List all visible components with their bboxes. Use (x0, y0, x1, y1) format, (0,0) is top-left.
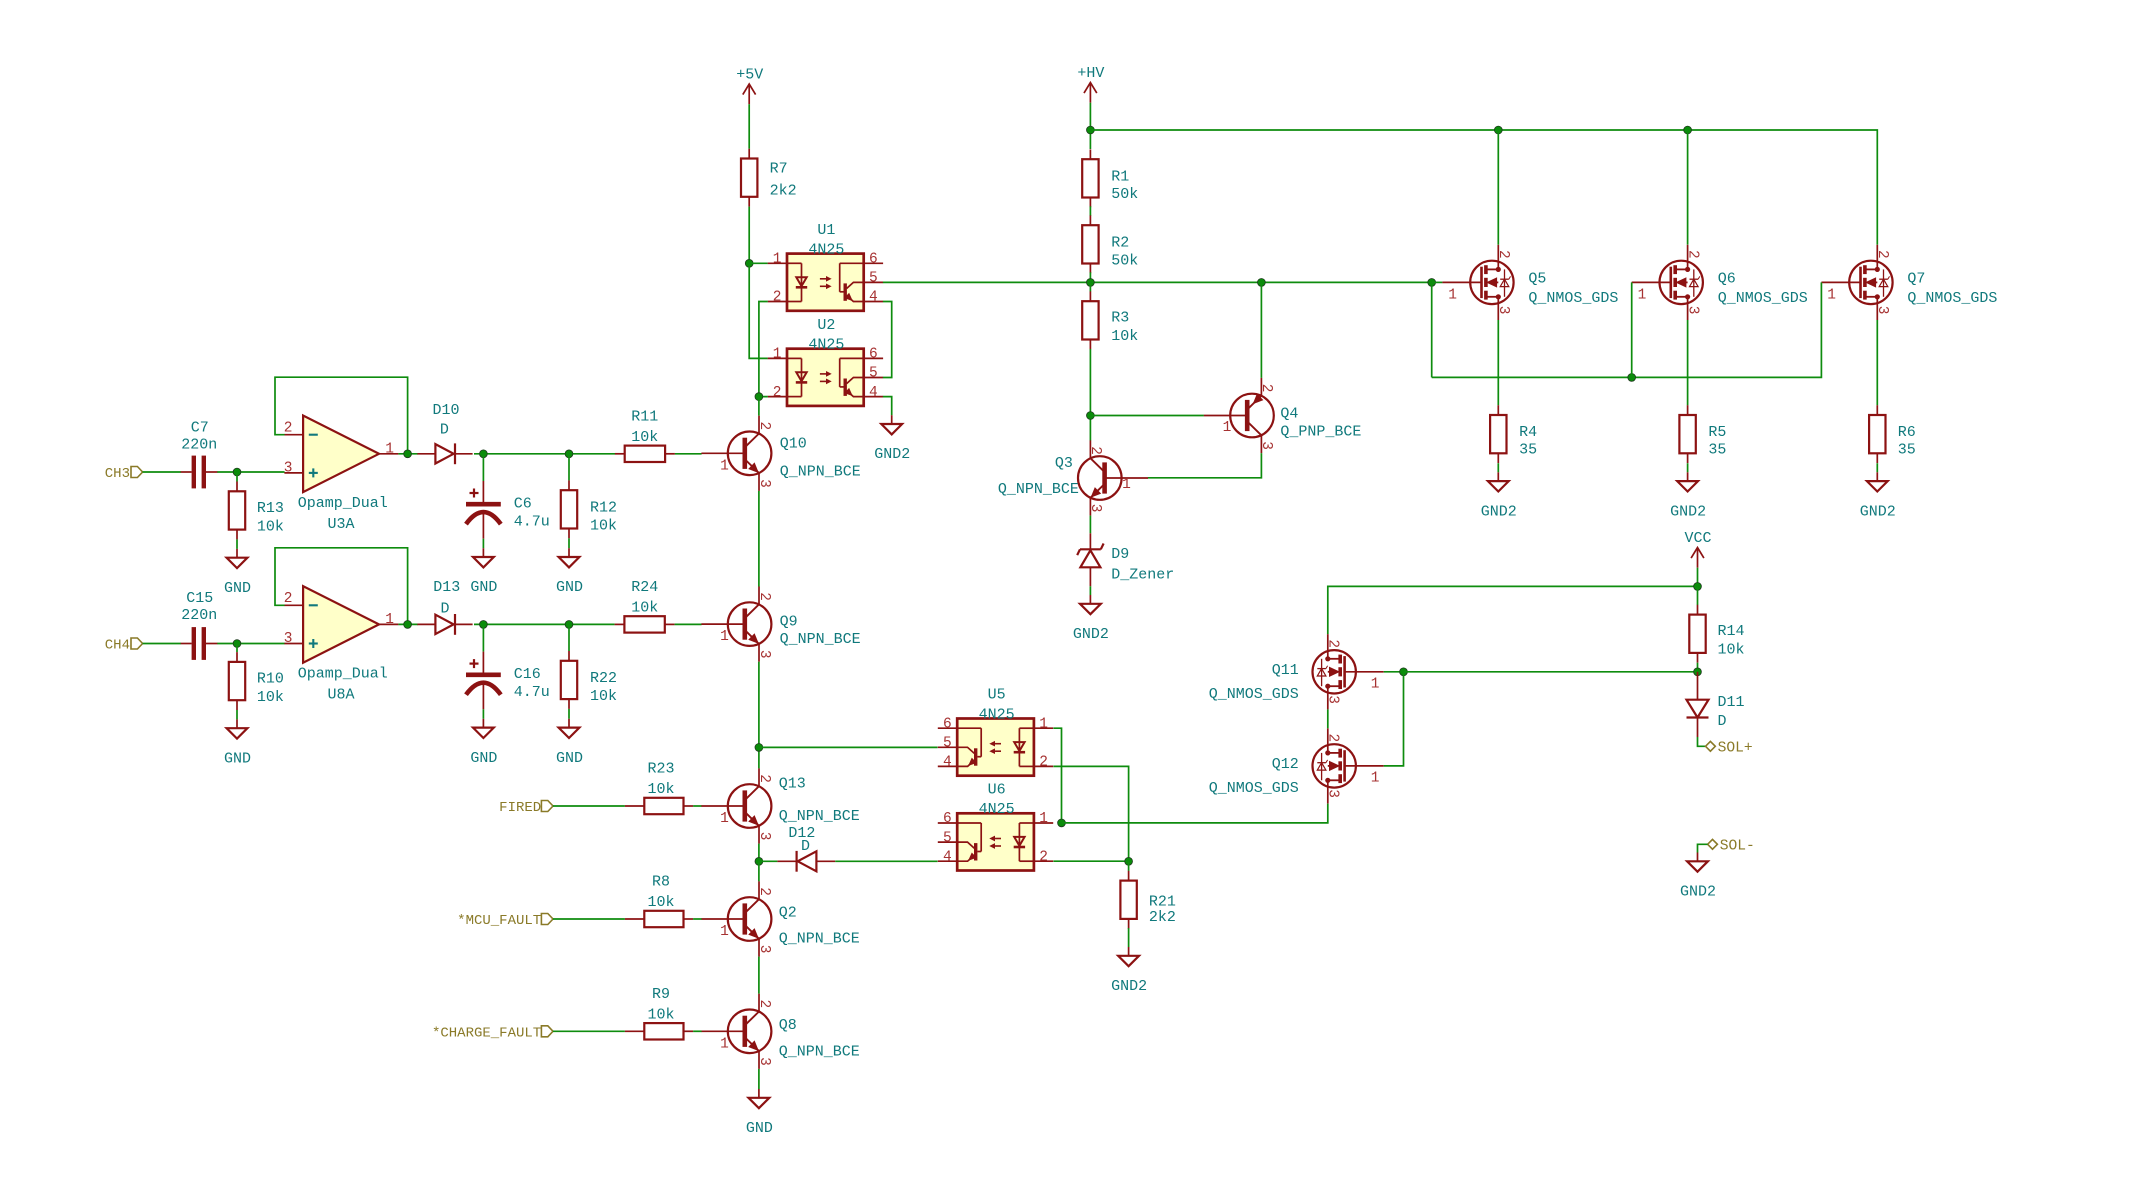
svg-text:R6: R6 (1898, 424, 1916, 441)
resistor R4 (1490, 415, 1506, 453)
svg-text:5: 5 (943, 830, 952, 846)
wire R9 to Q8 base (693, 1030, 702, 1032)
svg-text:4.7u: 4.7u (514, 684, 550, 701)
svg-text:6: 6 (869, 347, 878, 363)
svg-text:2: 2 (756, 592, 772, 601)
wire node to Q4 base (1090, 415, 1204, 417)
svg-text:1: 1 (1223, 420, 1232, 436)
svg-text:Opamp_Dual: Opamp_Dual (298, 665, 388, 682)
transistor Q13 (728, 784, 772, 828)
junction rail to Q6 drain (1684, 126, 1692, 134)
svg-text:D11: D11 (1718, 694, 1745, 711)
svg-text:CH3: CH3 (105, 466, 130, 482)
wire VCC node to R14 (1697, 586, 1699, 605)
svg-text:2: 2 (756, 887, 772, 896)
diode D11 (1687, 700, 1709, 718)
resistor R24 (624, 616, 664, 632)
junction R12 node (565, 450, 573, 458)
svg-text:Opamp_Dual: Opamp_Dual (298, 495, 388, 512)
junction D12 node (755, 857, 763, 865)
wire junction to R3 (1089, 282, 1091, 291)
junction CH4/R10 (233, 640, 241, 648)
svg-text:3: 3 (1874, 306, 1890, 315)
capacitor C16 (482, 652, 484, 674)
transistor Q7 (1849, 261, 1892, 304)
wire C16 to GND (482, 709, 484, 719)
wire VCC to junction (1697, 568, 1699, 587)
resistor R2 (1082, 225, 1098, 263)
wire R24 to Q9 base (675, 623, 702, 625)
svg-text:GND2: GND2 (874, 446, 910, 463)
svg-text:Q_NMOS_GDS: Q_NMOS_GDS (1907, 290, 1997, 307)
wire U3A feedback (275, 377, 408, 454)
junction gate bus to Q6 (1628, 374, 1636, 382)
wire U3A output (398, 453, 418, 455)
wire R8 to Q2 base (693, 918, 702, 920)
svg-text:GND: GND (224, 750, 251, 767)
svg-text:D: D (801, 838, 810, 855)
wire Q6 source to R5 (1687, 320, 1689, 405)
wire D10 to C6/R12/R11 (474, 453, 615, 455)
svg-text:35: 35 (1708, 441, 1726, 458)
svg-text:D9: D9 (1111, 546, 1129, 563)
D9 cathode pin (1089, 567, 1091, 586)
svg-text:D13: D13 (433, 579, 460, 596)
wire Q2 emitter to Q8 collector (758, 957, 760, 994)
wire FIRED to R23 (553, 805, 625, 807)
wire gate node to R14 node (1404, 671, 1698, 673)
svg-text:D_Zener: D_Zener (1111, 566, 1174, 583)
ground GND2 below R21 (1128, 947, 1130, 956)
svg-text:10k: 10k (631, 429, 658, 446)
ground below R22 (568, 719, 570, 728)
wire Q8 emitter to GND (758, 1069, 760, 1089)
hierarchical label SOL- (1708, 839, 1718, 849)
junction C16 node (480, 621, 488, 629)
junction R21 node (1125, 857, 1133, 865)
svg-text:D10: D10 (432, 402, 459, 419)
svg-text:2: 2 (284, 591, 293, 607)
wire Q9 emitter to junction and Q13 (758, 662, 760, 769)
svg-text:3: 3 (1325, 789, 1341, 798)
svg-text:R23: R23 (647, 761, 674, 778)
svg-text:Q4: Q4 (1280, 405, 1298, 422)
diode D11 anode pin (1697, 672, 1699, 700)
wire U6 pin2 to R21 node (1053, 860, 1128, 862)
svg-text:Q_NPN_BCE: Q_NPN_BCE (779, 931, 860, 948)
svg-text:3: 3 (1087, 504, 1103, 513)
optocoupler U1 (787, 254, 864, 311)
svg-text:10k: 10k (1718, 642, 1745, 659)
wire Q11 gate to node (1384, 671, 1404, 673)
optocoupler U2 (787, 349, 864, 406)
junction gate wire to Q4 emitter (1258, 279, 1266, 287)
wire gate bus vertical Q5 (1431, 282, 1433, 377)
net label *CHARGE_FAULT (541, 1026, 553, 1037)
svg-text:4N25: 4N25 (979, 801, 1015, 818)
junction Q9/Q13/U5 node (755, 744, 763, 752)
svg-text:Q12: Q12 (1272, 756, 1299, 773)
svg-text:GND: GND (470, 579, 497, 596)
wire R7 to U1 pin1 (748, 207, 750, 264)
svg-text:R14: R14 (1718, 623, 1745, 640)
svg-text:Q_PNP_BCE: Q_PNP_BCE (1280, 424, 1361, 441)
svg-text:Q11: Q11 (1272, 662, 1299, 679)
wire Q4 collector to Q3 base (1148, 453, 1262, 478)
capacitor C7 (192, 456, 196, 489)
svg-text:2: 2 (1039, 849, 1048, 865)
wire C7 to junction and opamp pin3 (217, 471, 284, 473)
net label FIRED (541, 801, 553, 812)
net label CH3 (131, 467, 143, 478)
svg-text:C7: C7 (191, 420, 209, 437)
power +5V (743, 84, 756, 95)
svg-text:D: D (1718, 713, 1727, 730)
resistor R9 (644, 1023, 683, 1039)
svg-text:R21: R21 (1149, 893, 1176, 910)
op-amp U3A (303, 416, 379, 493)
wire R3 to Q3 node (1089, 349, 1091, 441)
wire node to U5 pin5 (759, 746, 938, 748)
transistor Q6 (1660, 261, 1703, 304)
wire U2 pin4 to GND2 (883, 397, 892, 416)
svg-text:Q10: Q10 (780, 435, 807, 452)
svg-text:4.7u: 4.7u (514, 514, 550, 531)
wire Q6 gate drop (1631, 282, 1633, 377)
svg-text:D: D (440, 422, 449, 439)
resistor R21 (1120, 881, 1136, 919)
junction gate node Q11/Q12 (1400, 668, 1408, 676)
svg-text:R4: R4 (1519, 424, 1537, 441)
svg-text:4N25: 4N25 (808, 242, 844, 259)
wire R13 to GND (236, 539, 238, 549)
svg-text:Q7: Q7 (1907, 270, 1925, 287)
transistor Q8 (728, 1010, 772, 1054)
junction R7/U1/U2 node (745, 259, 753, 267)
svg-text:2: 2 (1325, 639, 1341, 648)
svg-text:U1: U1 (817, 222, 835, 239)
wire R21 to GND2 (1128, 928, 1130, 947)
svg-text:220n: 220n (181, 607, 217, 624)
svg-text:2: 2 (1684, 250, 1700, 259)
svg-text:Q6: Q6 (1718, 270, 1736, 287)
wire U5 pin2 to R21 node (1053, 766, 1128, 861)
svg-text:GND: GND (556, 750, 583, 767)
ground GND2 below D9 (1089, 595, 1091, 604)
resistor R6 (1869, 415, 1885, 453)
wire U8A feedback (275, 548, 408, 625)
svg-text:U2: U2 (817, 317, 835, 334)
wire down to C6 (482, 454, 484, 481)
junction C6 node (480, 450, 488, 458)
svg-text:R22: R22 (590, 670, 617, 687)
resistor R14 (1689, 615, 1705, 653)
diode D10 (435, 444, 453, 463)
transistor Q11 (1313, 650, 1356, 693)
svg-text:R2: R2 (1111, 234, 1129, 251)
svg-text:35: 35 (1519, 441, 1537, 458)
svg-text:2: 2 (1087, 446, 1103, 455)
ground below Q8 (758, 1089, 760, 1098)
svg-text:U8A: U8A (328, 686, 355, 703)
ground below C16 (482, 719, 484, 728)
svg-text:Q_NMOS_GDS: Q_NMOS_GDS (1209, 686, 1299, 703)
svg-text:C6: C6 (514, 495, 532, 512)
wire U1 pin4 to U2 pin5 (883, 302, 892, 378)
svg-text:R3: R3 (1111, 309, 1129, 326)
svg-text:Q5: Q5 (1528, 270, 1546, 287)
transistor Q4 (1230, 394, 1274, 438)
zener diode D9 anode pin (1089, 533, 1091, 549)
resistor R7 (741, 159, 757, 197)
resistor R1 (1082, 159, 1098, 197)
junction Q3 base rail node (1087, 412, 1095, 420)
svg-text:R9: R9 (652, 986, 670, 1003)
svg-text:*CHARGE_FAULT: *CHARGE_FAULT (432, 1026, 541, 1042)
wire CH3 to C7 (143, 471, 181, 473)
svg-text:1: 1 (1039, 811, 1048, 827)
svg-text:3: 3 (1325, 695, 1341, 704)
svg-text:2: 2 (1039, 755, 1048, 771)
transistor Q9 (728, 602, 772, 646)
svg-text:CH4: CH4 (105, 638, 130, 654)
svg-text:+5V: +5V (736, 66, 763, 83)
wire U1 pin5 long wire to MOSFET gates (883, 281, 1432, 283)
svg-text:C15: C15 (186, 590, 213, 607)
svg-text:3: 3 (1495, 306, 1511, 315)
wire R23 to Q13 base (693, 805, 702, 807)
svg-text:6: 6 (943, 811, 952, 827)
svg-text:5: 5 (943, 736, 952, 752)
wire down to U2 pin1 (749, 263, 768, 358)
svg-text:U6: U6 (988, 782, 1006, 799)
wire D9 to GND2 (1089, 586, 1091, 595)
svg-text:GND: GND (470, 750, 497, 767)
svg-text:3: 3 (756, 479, 772, 488)
junction VCC node (1694, 583, 1702, 591)
svg-text:R11: R11 (631, 408, 658, 425)
wire R4 to GND2 (1497, 463, 1499, 472)
svg-text:220n: 220n (181, 437, 217, 454)
svg-text:*MCU_FAULT: *MCU_FAULT (457, 913, 541, 929)
svg-text:GND2: GND2 (1670, 503, 1706, 520)
wire D13 to C16/R22/R24 (474, 623, 615, 625)
transistor Q12 (1313, 744, 1356, 787)
svg-text:1: 1 (720, 629, 729, 645)
wire junction to R13 (236, 472, 238, 482)
op-amp U8A (303, 586, 379, 663)
svg-text:3: 3 (756, 650, 772, 659)
svg-text:35: 35 (1898, 441, 1916, 458)
svg-text:R8: R8 (652, 874, 670, 891)
svg-text:10k: 10k (631, 599, 658, 616)
ground GND2 below U2 (891, 415, 893, 424)
svg-text:Q_NMOS_GDS: Q_NMOS_GDS (1209, 780, 1299, 797)
wire Q5 gate stub (1432, 281, 1443, 283)
wire Q5 source to R4 (1497, 320, 1499, 405)
wire down to C16 (482, 624, 484, 651)
svg-text:4: 4 (869, 290, 878, 306)
ground GND2 below R4 (1497, 472, 1499, 481)
optocoupler U5 (957, 719, 1034, 776)
svg-text:Q3: Q3 (1055, 455, 1073, 472)
svg-text:4: 4 (943, 849, 952, 865)
svg-text:R7: R7 (770, 160, 788, 177)
diode D12 (798, 851, 817, 871)
svg-text:3: 3 (284, 631, 293, 647)
svg-text:GND: GND (746, 1120, 773, 1137)
svg-text:3: 3 (1258, 441, 1274, 450)
wire Q10 emitter to Q9 collector (758, 491, 760, 587)
svg-text:4: 4 (943, 755, 952, 771)
ground below R10 (236, 719, 238, 728)
svg-text:+HV: +HV (1077, 65, 1104, 82)
svg-text:10k: 10k (590, 517, 617, 534)
svg-text:Q13: Q13 (779, 775, 806, 792)
wire Q3 emitter to D9 (1089, 516, 1091, 534)
svg-text:10k: 10k (590, 688, 617, 705)
resistor R13 (229, 491, 245, 529)
svg-text:Q_NPN_BCE: Q_NPN_BCE (780, 631, 861, 648)
wire C6 to GND (482, 539, 484, 549)
svg-text:R12: R12 (590, 500, 617, 517)
svg-text:50k: 50k (1111, 186, 1138, 203)
svg-text:3: 3 (1684, 306, 1700, 315)
svg-text:10k: 10k (257, 519, 284, 536)
net label *MCU_FAULT (541, 914, 553, 925)
svg-text:10k: 10k (647, 894, 674, 911)
wire gate node down to Q12 gate (1384, 672, 1404, 766)
svg-text:Q8: Q8 (779, 1017, 797, 1034)
svg-text:GND2: GND2 (1073, 626, 1109, 643)
wire Q11 drain to VCC rail (1328, 586, 1698, 634)
wire R1 to R2 (1089, 206, 1091, 216)
svg-text:1: 1 (385, 612, 394, 628)
diode D13 (435, 615, 453, 634)
svg-text:SOL-: SOL- (1720, 839, 1755, 855)
zener diode D9 (1080, 548, 1101, 550)
wire R11 to Q10 base (675, 453, 702, 455)
junction U2 pin2 / Q10 collector node (755, 393, 763, 401)
wire node to Q10 collector (758, 397, 760, 416)
transistor Q5 (1470, 261, 1513, 304)
wire CHARGE_FAULT to R9 (553, 1030, 625, 1032)
wire Q7 source to R6 (1876, 320, 1878, 405)
power VCC (1691, 548, 1704, 559)
wire U8A output (398, 623, 418, 625)
svg-text:SOL+: SOL+ (1718, 741, 1753, 757)
ground below R13 (236, 549, 238, 558)
resistor R23 (644, 798, 683, 814)
svg-text:R1: R1 (1111, 168, 1129, 185)
wire node to Q2 collector (758, 861, 760, 881)
resistor R11 (625, 446, 665, 462)
svg-text:5: 5 (869, 366, 878, 382)
svg-text:2k2: 2k2 (770, 183, 797, 200)
svg-text:3: 3 (756, 1057, 772, 1066)
wire node to R21 (1128, 861, 1130, 871)
svg-text:Q_NMOS_GDS: Q_NMOS_GDS (1718, 290, 1808, 307)
svg-text:Q_NPN_BCE: Q_NPN_BCE (779, 1044, 860, 1061)
wire R12 to GND (568, 538, 570, 548)
svg-text:D: D (440, 600, 449, 617)
wire D12 to U6 pin4 (835, 860, 937, 862)
wire to U1 pin1 (749, 262, 768, 264)
junction U8A output node (404, 621, 412, 629)
svg-text:50k: 50k (1111, 253, 1138, 270)
svg-text:1: 1 (720, 1036, 729, 1052)
resistor R12 (561, 490, 577, 528)
junction rail to Q5 drain (1494, 126, 1502, 134)
svg-text:1: 1 (1122, 477, 1131, 493)
transistor Q2 (728, 897, 772, 941)
svg-text:1: 1 (1638, 288, 1647, 304)
svg-text:2: 2 (773, 290, 782, 306)
hierarchical label SOL+ (1706, 741, 1716, 751)
svg-text:R5: R5 (1708, 424, 1726, 441)
junction U3A output node (404, 450, 412, 458)
junction U5/U6 pin1 node (1058, 819, 1066, 827)
svg-text:5: 5 (869, 271, 878, 287)
wire R10 to GND (236, 710, 238, 719)
D11 cathode pin (1697, 718, 1699, 738)
svg-text:1: 1 (773, 347, 782, 363)
svg-text:2: 2 (1874, 250, 1890, 259)
svg-text:2: 2 (1258, 384, 1274, 393)
wire R6 to GND2 (1876, 463, 1878, 472)
svg-text:GND: GND (224, 580, 251, 597)
wire gate bus horizontal (1432, 282, 1822, 377)
svg-text:2: 2 (756, 422, 772, 431)
wire R22 to GND (568, 709, 570, 719)
svg-text:GND: GND (556, 579, 583, 596)
wire D12 anode wire (759, 860, 778, 862)
svg-text:1: 1 (773, 252, 782, 268)
svg-text:3: 3 (284, 461, 293, 477)
power +HV (1084, 83, 1097, 94)
svg-text:4: 4 (869, 385, 878, 401)
wire C15 to junction and opamp pin3 (217, 643, 284, 645)
ground below R12 (568, 548, 570, 557)
wire Q4 emitter up to gate wire (1260, 282, 1262, 378)
transistor Q3 (1078, 456, 1122, 500)
wire Q11 source to Q12 drain (1327, 709, 1329, 728)
svg-text:4N25: 4N25 (808, 337, 844, 354)
resistor R22 (561, 661, 577, 699)
resistor R10 (229, 662, 245, 700)
junction R2/R3 node (1087, 279, 1095, 287)
svg-text:Q9: Q9 (780, 613, 798, 630)
svg-text:Q_NPN_BCE: Q_NPN_BCE (779, 808, 860, 825)
resistor R8 (644, 911, 683, 927)
wire U5 pin1 down to U6 pin1 (1053, 728, 1061, 823)
wire junction to R10 (236, 644, 238, 653)
svg-text:GND2: GND2 (1680, 884, 1716, 901)
svg-text:1: 1 (1039, 716, 1048, 732)
svg-text:6: 6 (869, 252, 878, 268)
svg-text:1: 1 (720, 458, 729, 474)
wire down to R12 (568, 454, 570, 481)
optocoupler U6 (957, 813, 1034, 870)
svg-text:Q_NPN_BCE: Q_NPN_BCE (998, 481, 1079, 498)
wire R14 to node (1697, 663, 1699, 672)
wire HV top rail (1090, 130, 1877, 245)
svg-text:3: 3 (756, 832, 772, 841)
svg-text:2k2: 2k2 (1149, 909, 1176, 926)
svg-text:FIRED: FIRED (499, 800, 541, 816)
resistor R5 (1679, 415, 1695, 453)
svg-text:U5: U5 (988, 687, 1006, 704)
